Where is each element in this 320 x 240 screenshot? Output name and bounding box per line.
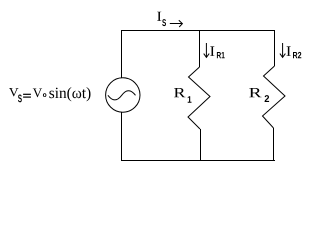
resistor R1 zigzag <box>188 67 210 129</box>
label R1 letter R <box>174 88 185 97</box>
current arrow IR2 pointing down <box>280 43 286 57</box>
wire: left branch lower, source bottom to bottom bus <box>121 112 123 160</box>
wire: right branch upper, top bus down to R2 <box>274 30 276 66</box>
ac source VS circle <box>106 78 140 112</box>
source label letter V of Vo <box>33 89 42 98</box>
current label IR2 subscript R2 <box>293 52 301 58</box>
source label subscript o of Vo <box>43 93 47 97</box>
wire: left branch upper, top bus down to source top <box>121 30 123 78</box>
current label IR1 subscript R1 <box>217 52 225 58</box>
current arrow IS pointing right <box>170 20 183 27</box>
wire: top bus from source branch to R2 branch <box>121 30 275 32</box>
ac source VS sine wave <box>108 91 136 100</box>
wire: bottom bus <box>121 160 275 162</box>
current label IR1 letter I <box>210 46 214 56</box>
source label equals sign top bar <box>23 94 31 95</box>
label R2 letter R <box>249 88 261 97</box>
wire: middle branch lower, R1 to bottom bus <box>200 129 202 160</box>
label R2 subscript 2 <box>265 95 270 102</box>
label R1 subscript 1 <box>188 96 192 103</box>
wire: right branch lower, R2 to bottom bus <box>273 128 275 160</box>
current label IS letter I <box>157 12 161 21</box>
wire: middle branch upper, top bus down to R1 <box>199 30 201 67</box>
current label IR2 letter I <box>287 46 291 56</box>
source label letter V of VS <box>9 88 19 96</box>
resistor R2 zigzag <box>263 66 286 128</box>
source label equals sign bottom bar <box>23 97 31 98</box>
source label subscript S of VS <box>18 95 22 103</box>
current label IS subscript S <box>162 19 166 26</box>
source label sin(wt) <box>49 87 90 101</box>
current arrow IR1 pointing down <box>204 43 210 57</box>
